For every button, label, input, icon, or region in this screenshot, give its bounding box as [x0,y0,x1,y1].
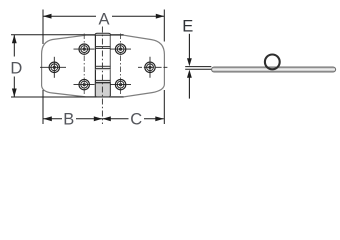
svg-text:E: E [182,18,193,36]
hinge leaf outline (plan view) [42,35,165,97]
svg-text:D: D [10,60,22,78]
E dimension stem top [188,34,190,60]
arrow D up [12,35,17,44]
E extension line bottom [185,68,211,70]
svg-text:C: C [130,111,142,129]
arrow A left [43,14,52,19]
barrel circle [265,55,280,70]
barrel knuckle joint 2 [95,65,110,67]
hole centerline left column (dashed vertical) [83,34,85,96]
svg-text:B: B [63,110,74,128]
dimension B line [43,118,62,120]
arrow D down [12,89,17,98]
leaf bar (edge-on) [212,67,336,72]
screw hole left top inner [74,44,95,54]
arrow C right [155,116,164,121]
extension line right (A/C) bottom segment [163,90,165,124]
dimension A line [43,15,96,17]
extension line right (A/C) top segment [163,10,165,42]
arrow C left [102,116,111,121]
screw hole left bottom inner [74,79,95,89]
arrow B right [94,116,103,121]
barrel body [95,35,110,97]
barrel knuckle joint 3 [95,79,110,81]
screw hole right top inner [110,44,131,54]
dimension extension line top (D) [11,34,124,36]
hole centerline right column (dashed vertical) [120,34,122,96]
E dimension stem bottom [188,76,190,99]
arrow A right [156,14,165,19]
screw hole left outer [40,57,66,78]
barrel pin centerline (dashed) [101,27,103,125]
E extension line top [185,66,211,68]
barrel top cap [95,33,110,35]
barrel bottom cap [95,83,110,97]
arrow E down [187,58,192,66]
screw hole right bottom inner [110,79,131,89]
extension line left (A/B) bottom segment [42,90,44,124]
arrow E up [187,70,192,78]
extension line left (A/B) top segment [42,10,44,45]
dimension C line [102,118,128,120]
barrel knuckle joint 1 [95,46,110,48]
dimension D line [13,35,15,57]
dimension extension line bottom (D) [11,96,124,98]
svg-text:A: A [98,11,109,29]
screw hole right outer [138,57,169,78]
arrow B left [43,116,52,121]
